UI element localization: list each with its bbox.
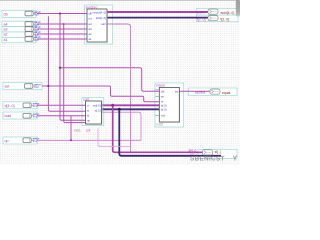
input pin in4 selection box	[2, 21, 36, 26]
watermark grey blob top right	[0, 0, 1, 1]
input pin in3 selection box	[2, 27, 36, 32]
svg-text:a3: a3	[4, 28, 8, 32]
svg-text:clk: clk	[161, 89, 165, 93]
wire: input in3 to block1	[37, 28, 87, 30]
wire: block2 cout pale wire down to up wire	[102, 112, 142, 140]
svg-text:INPUT: INPUT	[34, 12, 41, 14]
svg-text:inst2: inst2	[157, 123, 164, 127]
wire: bus block1 out1 to output pin wd4	[107, 11, 208, 13]
svg-text:a1: a1	[89, 37, 93, 41]
input pin in3	[4, 27, 42, 32]
node: junction in4 x63.7	[63, 23, 65, 25]
wire: dangling vertical x48.4 to block2 pin2	[48, 16, 85, 111]
input pin in2 selection box	[2, 32, 36, 37]
svg-text:Y: Y	[233, 156, 238, 163]
top edge border	[0, 0, 240, 2]
svg-text:inst1: inst1	[74, 129, 81, 133]
wire stubs cmp selected pins	[102, 90, 160, 116]
wire: bus block2 out2 to cmp pin5	[102, 108, 160, 110]
input pin up	[5, 138, 41, 143]
svg-text:wd[.0]: wd[.0]	[93, 103, 101, 107]
input pin in4	[4, 22, 42, 27]
input pin in1 selection box	[2, 37, 36, 42]
output pin equal	[195, 89, 231, 95]
svg-text:cnt: cnt	[86, 129, 90, 133]
output pin wd4	[197, 9, 234, 15]
svg-text:tp0[2..0]: tp0[2..0]	[96, 16, 106, 20]
svg-text:VCC: VCC	[33, 117, 38, 119]
wire: y67.8 branch to cmp pin1	[60, 68, 159, 92]
input pin clk selection box	[2, 10, 36, 17]
output pin wd4 selection box	[197, 9, 239, 16]
block U1 synchro selection box	[85, 5, 113, 44]
input pin set	[5, 84, 42, 90]
svg-text:en: en	[161, 94, 165, 98]
svg-text:wd4[4..0]: wd4[4..0]	[221, 11, 235, 15]
svg-text:st[..]: st[..]	[215, 150, 221, 154]
svg-text:b[.0]: b[.0]	[161, 108, 167, 112]
node: junction bus1	[111, 104, 114, 107]
node: junction load branch on up wire	[70, 139, 72, 141]
wire: input load to block2 pin3	[37, 115, 86, 117]
input pin up selection box	[3, 137, 37, 144]
input pin load selection box	[3, 112, 37, 119]
svg-text:VCC: VCC	[34, 40, 39, 42]
input pin set selection box	[3, 82, 42, 89]
node: junction clk top	[59, 12, 61, 14]
output pin equal selection box	[189, 88, 238, 96]
output pin t	[197, 16, 229, 22]
svg-text:SBENICST: SBENICST	[190, 156, 225, 163]
wire: carr from block1 down long vertical to bottom	[107, 24, 131, 152]
svg-text:VCC: VCC	[33, 106, 38, 108]
wire: input set y86 routed to cmp pin2	[42, 86, 159, 102]
svg-text:newct[4..0]: newct[4..0]	[92, 10, 106, 14]
svg-text:w[.0]: w[.0]	[95, 108, 101, 112]
output pin t selection box	[197, 15, 239, 22]
svg-text:a4: a4	[4, 23, 8, 27]
output pin st	[189, 148, 221, 155]
svg-text:rst: rst	[89, 17, 92, 21]
svg-text:t[2..0]: t[2..0]	[197, 17, 206, 21]
svg-text:set: set	[5, 85, 10, 89]
input pin load	[5, 113, 41, 118]
wire: input in1 to block1	[37, 38, 87, 40]
wire: input clk to block1 pin1	[37, 13, 87, 15]
wire: cmp eq output to equal pin	[179, 90, 210, 92]
svg-text:wd4..: wd4..	[197, 11, 205, 15]
input pin clk	[4, 11, 42, 17]
block U2 counter	[83, 97, 102, 124]
wire: pale jog x98 to carr vertical	[98, 129, 131, 147]
svg-text:VCC: VCC	[34, 87, 39, 89]
wire: bus vertical x119.3 down to bottom	[119, 109, 221, 156]
input pin in1	[4, 37, 42, 42]
node: junction bus2	[118, 108, 121, 111]
wire: bus vertical x112.7 down to bottom output st	[113, 105, 203, 152]
input pin in2	[4, 32, 42, 37]
wire: input up y140.3	[37, 139, 141, 141]
wire: in4 branch x63.7 down to block2 pin5	[64, 24, 86, 123]
svg-text:carr: carr	[101, 22, 106, 26]
svg-text:VCC: VCC	[33, 141, 38, 143]
svg-text:eq: eq	[175, 89, 179, 93]
svg-text:clk: clk	[4, 12, 9, 16]
svg-text:a2: a2	[4, 33, 8, 37]
output pin st selection box	[198, 149, 237, 158]
svg-text:a2: a2	[89, 32, 93, 36]
grid background	[0, 0, 240, 165]
block U2 counter selection box	[82, 98, 104, 126]
wire: clk vertical branch x60 down to block2 pin4	[60, 14, 86, 121]
svg-text:load: load	[5, 114, 12, 118]
svg-text:st: st	[87, 108, 89, 112]
svg-text:VCC: VCC	[34, 15, 39, 17]
svg-text:dectba: dectba	[195, 91, 205, 95]
input pin d selection box	[3, 102, 37, 109]
wire: bus block1 out2 to output pin t	[107, 17, 208, 19]
svg-text:up: up	[87, 118, 91, 122]
block U3 compare	[156, 84, 180, 123]
node: junction set wire x48.4	[47, 85, 49, 87]
wire: input in2 to block1	[37, 33, 87, 35]
svg-text:a4: a4	[89, 22, 93, 26]
svg-text:md: md	[161, 113, 165, 117]
block U3 compare selection box	[155, 83, 184, 127]
input pin d	[5, 103, 41, 108]
wire: bus block2 out1 to cmp pin4	[102, 104, 160, 106]
svg-text:a3: a3	[89, 27, 93, 31]
svg-text:d[4..0]: d[4..0]	[5, 104, 15, 108]
svg-text:up: up	[5, 139, 9, 143]
svg-text:equal: equal	[222, 91, 231, 95]
svg-text:t[2..0]: t[2..0]	[221, 17, 230, 21]
svg-text:INPUT: INPUT	[34, 84, 41, 86]
block U1 synchro	[86, 6, 108, 43]
wire: load branch x71 down to up wire	[70, 116, 72, 141]
wire: input in4 to block1	[37, 23, 87, 25]
node: junction y67.8	[59, 67, 61, 69]
wire: input d to block2 pin1	[37, 104, 86, 106]
svg-text:a1: a1	[4, 38, 8, 42]
